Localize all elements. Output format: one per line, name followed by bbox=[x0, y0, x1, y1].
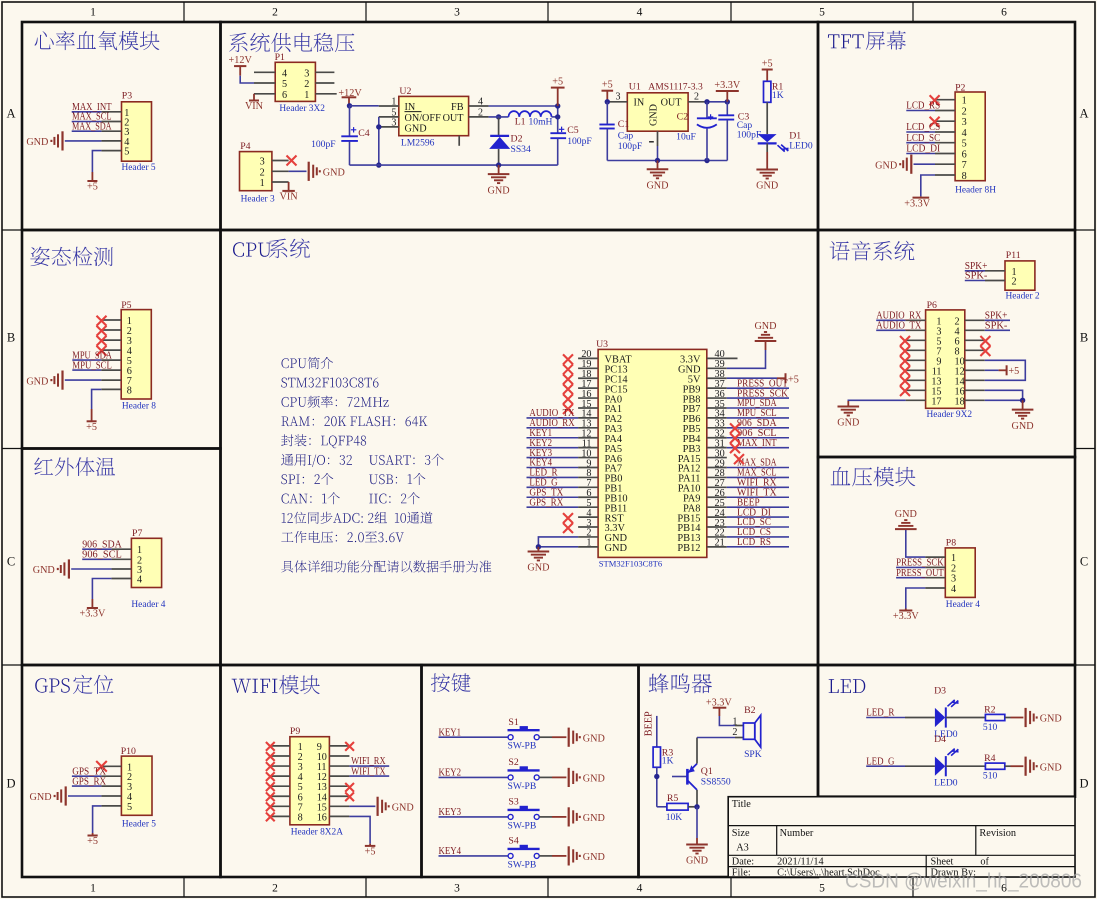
svg-text:P11: P11 bbox=[1006, 250, 1021, 261]
svg-text:Header 9X2: Header 9X2 bbox=[927, 410, 973, 420]
svg-text:C: C bbox=[7, 555, 15, 569]
wire Q1 emitter to gnd bbox=[696, 807, 698, 838]
title 血压模块 bbox=[831, 467, 916, 487]
svg-text:GND: GND bbox=[756, 181, 778, 192]
svg-text:LCD_RS: LCD_RS bbox=[906, 101, 940, 112]
no-connect X P9.8 bbox=[266, 812, 275, 821]
switch S4 KEY4 bbox=[439, 836, 605, 871]
net label GPS_TX P10 bbox=[72, 766, 107, 777]
svg-text:S2: S2 bbox=[508, 757, 518, 768]
resistor R1 1K bbox=[762, 59, 784, 135]
net label KEY2 U3 bbox=[527, 438, 579, 449]
svg-text:R4: R4 bbox=[984, 753, 996, 764]
svg-text:2: 2 bbox=[1012, 277, 1017, 288]
svg-text:906_SCL: 906_SCL bbox=[82, 550, 122, 561]
cpu info line 具体详细 bbox=[281, 560, 491, 572]
svg-text:GND: GND bbox=[583, 813, 605, 824]
net label GPS_TX U3 bbox=[527, 487, 579, 498]
svg-text:C: C bbox=[1080, 555, 1088, 569]
svg-text:GND: GND bbox=[405, 124, 427, 135]
svg-text:D: D bbox=[1079, 777, 1088, 791]
ground U1 bbox=[646, 161, 668, 192]
wire P6.17 gnd bbox=[848, 399, 905, 402]
svg-text:VIN: VIN bbox=[280, 192, 299, 203]
power +5 C5 bbox=[551, 77, 565, 106]
svg-text:100pF: 100pF bbox=[311, 139, 336, 150]
svg-text:OUT: OUT bbox=[443, 113, 465, 124]
power +5 P9.16 bbox=[349, 816, 375, 857]
svg-text:P10: P10 bbox=[121, 746, 136, 757]
svg-text:1K: 1K bbox=[662, 756, 674, 767]
ground P3.4 bbox=[26, 131, 101, 150]
net label BEEP bbox=[644, 711, 657, 747]
ground P9.15 bbox=[349, 797, 413, 816]
svg-text:P8: P8 bbox=[946, 537, 956, 548]
svg-text:8: 8 bbox=[962, 171, 967, 182]
svg-text:SS8550: SS8550 bbox=[701, 777, 731, 788]
net label GPS_RX P10 bbox=[72, 776, 107, 787]
svg-text:+5: +5 bbox=[602, 80, 613, 91]
svg-text:C2: C2 bbox=[677, 112, 689, 123]
svg-text:GND: GND bbox=[583, 852, 605, 863]
svg-text:S1: S1 bbox=[508, 717, 518, 728]
net label LCD_CS bbox=[906, 122, 940, 133]
header P1 bbox=[254, 52, 337, 114]
svg-text:GND: GND bbox=[392, 803, 414, 814]
net label LCD_SC bbox=[906, 133, 940, 144]
net label MAX_SCL bbox=[72, 112, 112, 123]
svg-text:100pF: 100pF bbox=[737, 130, 762, 141]
cpu info line 封装 bbox=[281, 434, 366, 448]
net label KEY4 U3 bbox=[527, 458, 579, 469]
no-connect X P5.4 bbox=[97, 346, 107, 356]
svg-text:10uF: 10uF bbox=[676, 132, 696, 143]
no-connect X P6.5 bbox=[900, 336, 910, 346]
net label 906_SCL P7 bbox=[82, 550, 122, 561]
title 语音系统 bbox=[830, 241, 915, 261]
svg-text:S3: S3 bbox=[508, 797, 518, 808]
cpu info line USART bbox=[369, 454, 444, 466]
section box voice system bbox=[818, 230, 1075, 457]
net label MAX_SDA bbox=[72, 121, 112, 132]
power +3.3V P7.4 bbox=[79, 579, 111, 620]
wire U1 ground rail bbox=[607, 146, 727, 163]
inductor L1 10mH bbox=[509, 111, 553, 128]
svg-text:LM2596: LM2596 bbox=[401, 137, 435, 148]
transistor Q1 SS8550 bbox=[672, 738, 731, 810]
svg-text:ON/OFF: ON/OFF bbox=[405, 113, 442, 124]
cpu info line 通用IO bbox=[281, 454, 352, 467]
svg-text:P3: P3 bbox=[122, 90, 132, 101]
svg-text:GND: GND bbox=[583, 733, 605, 744]
svg-text:A3: A3 bbox=[736, 843, 749, 854]
svg-text:1: 1 bbox=[90, 883, 96, 895]
svg-text:U1: U1 bbox=[629, 82, 641, 93]
svg-text:10K: 10K bbox=[666, 812, 683, 823]
no-connect X U3.17 bbox=[563, 384, 573, 394]
svg-text:5: 5 bbox=[819, 7, 825, 19]
no-ERC X U3.30 bbox=[734, 454, 744, 464]
cpu info line CAN bbox=[282, 492, 340, 504]
svg-text:Header 8: Header 8 bbox=[122, 401, 156, 411]
diode D2 SS34 bbox=[489, 114, 531, 168]
svg-text:+3.3V: +3.3V bbox=[714, 80, 740, 91]
switch S1 KEY1 bbox=[439, 717, 605, 752]
net label KEY1 U3 bbox=[527, 428, 579, 439]
svg-text:GND: GND bbox=[33, 565, 55, 576]
net label SPK+ P6 bbox=[985, 311, 1010, 322]
svg-text:P9: P9 bbox=[290, 726, 300, 737]
svg-text:Revision: Revision bbox=[979, 828, 1016, 839]
svg-text:4: 4 bbox=[282, 68, 287, 79]
section box power supply bbox=[221, 22, 819, 230]
svg-text:Header 3X2: Header 3X2 bbox=[279, 104, 325, 114]
ground P5.7 bbox=[26, 371, 101, 390]
svg-text:3: 3 bbox=[962, 117, 967, 128]
svg-text:SW-PB: SW-PB bbox=[508, 781, 537, 792]
watermark CSDN bbox=[845, 871, 1082, 893]
svg-text:SW-PB: SW-PB bbox=[508, 741, 537, 752]
svg-text:IN: IN bbox=[634, 98, 645, 109]
LED D1 bbox=[758, 131, 813, 153]
svg-text:Header 3: Header 3 bbox=[241, 195, 275, 205]
no-connect X P9.6 bbox=[266, 792, 275, 801]
ground P6 right bbox=[1012, 400, 1034, 432]
capacitor C3 bbox=[718, 102, 761, 161]
no-connect X P9.14 bbox=[345, 792, 354, 801]
svg-text:+5: +5 bbox=[788, 374, 799, 385]
power +5 P3.5 bbox=[87, 151, 101, 193]
no-connect X P5.2 bbox=[97, 326, 107, 336]
ground P2.7 bbox=[875, 155, 935, 174]
wire ground rail bbox=[350, 164, 558, 166]
svg-text:4: 4 bbox=[951, 584, 956, 595]
no-connect X P10.1 bbox=[96, 761, 107, 772]
svg-text:Size: Size bbox=[732, 828, 750, 839]
power +5 P6.12 bbox=[985, 365, 1019, 377]
section box keys bbox=[422, 665, 639, 877]
svg-text:B2: B2 bbox=[744, 705, 756, 716]
net label LCD_CS U3r bbox=[727, 527, 789, 538]
title 模块 bbox=[279, 675, 320, 694]
svg-text:File:: File: bbox=[732, 868, 751, 879]
net label 906_SDA P7 bbox=[82, 539, 122, 550]
power +12V node bbox=[338, 88, 362, 105]
svg-text:1: 1 bbox=[586, 538, 591, 549]
net label LED_R U3 bbox=[527, 468, 579, 479]
svg-text:6: 6 bbox=[962, 150, 967, 161]
svg-text:LCD_CS: LCD_CS bbox=[906, 122, 940, 133]
net label SPK- P11 bbox=[965, 271, 988, 282]
net label WIFI_RX U3r bbox=[727, 478, 789, 489]
svg-text:STM32F103C8T6: STM32F103C8T6 bbox=[599, 559, 663, 569]
svg-text:SW-PB: SW-PB bbox=[508, 820, 537, 831]
svg-text:GPS_RX: GPS_RX bbox=[529, 497, 563, 508]
ground Q1 bbox=[686, 838, 708, 867]
svg-text:D4: D4 bbox=[934, 734, 946, 745]
svg-text:Header 5: Header 5 bbox=[122, 163, 156, 173]
svg-text:P1: P1 bbox=[275, 52, 285, 63]
svg-text:6: 6 bbox=[282, 90, 287, 101]
svg-text:4: 4 bbox=[637, 883, 643, 895]
net label MPU_SCL bbox=[72, 360, 112, 371]
svg-text:4: 4 bbox=[637, 7, 643, 19]
net label MPU_SCL U3r bbox=[727, 408, 789, 419]
svg-text:Header 8H: Header 8H bbox=[955, 185, 996, 195]
svg-text:6: 6 bbox=[1001, 7, 1007, 19]
svg-text:3: 3 bbox=[304, 68, 309, 79]
net label WIFI_TX U3r bbox=[727, 487, 789, 498]
net label PRESS_OUT U3r bbox=[727, 378, 789, 389]
svg-text:+3.3V: +3.3V bbox=[79, 609, 105, 620]
regulator U1 AMS1117-3.3 bbox=[607, 82, 707, 146]
svg-text:+5: +5 bbox=[87, 182, 98, 193]
svg-text:5: 5 bbox=[819, 883, 825, 895]
cpu info line RAM FLASH bbox=[281, 416, 427, 426]
svg-text:KEY3: KEY3 bbox=[439, 807, 462, 818]
title block bbox=[728, 797, 1075, 879]
title 系统 bbox=[269, 239, 310, 259]
svg-text:3: 3 bbox=[616, 92, 621, 103]
power +5 U1 bbox=[602, 80, 614, 105]
header P5 bbox=[101, 300, 156, 411]
header P4 bbox=[240, 141, 289, 205]
svg-text:GPS_RX: GPS_RX bbox=[72, 776, 106, 787]
svg-text:Header 8X2A: Header 8X2A bbox=[291, 828, 344, 838]
switch S2 KEY2 bbox=[439, 757, 605, 792]
section box CPU system bbox=[221, 230, 819, 665]
header P7 bbox=[111, 528, 165, 610]
section box blood pressure bbox=[818, 457, 1075, 665]
svg-text:5: 5 bbox=[124, 147, 129, 158]
no-connect X P5.1 bbox=[97, 316, 107, 326]
header P6 bbox=[906, 300, 985, 420]
svg-text:4: 4 bbox=[962, 128, 967, 139]
svg-text:8: 8 bbox=[127, 385, 132, 396]
wire FB node bbox=[489, 103, 561, 133]
power VIN P4 bbox=[280, 182, 299, 203]
LED D4 row (LED_G,R4) bbox=[866, 734, 1062, 789]
svg-text:LED_G: LED_G bbox=[866, 756, 895, 767]
net label PRESS_SCK U3r bbox=[727, 388, 789, 399]
section box LED bbox=[818, 665, 1075, 797]
ground P7.3 bbox=[33, 559, 112, 578]
svg-text:Date:: Date: bbox=[732, 857, 754, 868]
section box WIFI bbox=[221, 665, 422, 877]
title WIFI bbox=[232, 679, 278, 693]
svg-text:BEEP: BEEP bbox=[644, 711, 655, 736]
svg-text:Header 4: Header 4 bbox=[946, 600, 980, 610]
net label AUDIO_TX P6 bbox=[876, 321, 922, 332]
net label MAX_INT U3r bbox=[727, 438, 789, 449]
wire OUT bbox=[489, 116, 509, 118]
svg-text:+5: +5 bbox=[1008, 366, 1019, 377]
cpu info line CPU简介 bbox=[282, 357, 334, 369]
capacitor C1 bbox=[599, 102, 642, 161]
title 系统供电稳压 bbox=[229, 33, 354, 53]
svg-text:Cap: Cap bbox=[618, 131, 634, 142]
wire R3 to base node bbox=[654, 767, 659, 807]
svg-text:Number: Number bbox=[780, 828, 814, 839]
cpu info line CPU频率 bbox=[282, 396, 389, 408]
svg-text:GND: GND bbox=[1040, 762, 1062, 773]
section box buzzer bbox=[639, 665, 819, 877]
svg-text:1K: 1K bbox=[772, 90, 784, 101]
no-ERC X U3.32 bbox=[730, 433, 740, 443]
svg-text:SW-PB: SW-PB bbox=[508, 859, 537, 870]
no-connect X P6.7 bbox=[900, 346, 910, 356]
no-connect X U3.18 bbox=[563, 374, 573, 384]
net label MAX_INT bbox=[72, 102, 113, 113]
svg-text:1: 1 bbox=[260, 178, 265, 189]
svg-text:PB12: PB12 bbox=[677, 543, 700, 554]
svg-text:+3.3V: +3.3V bbox=[893, 611, 919, 622]
svg-text:3: 3 bbox=[260, 157, 265, 168]
title 定位 bbox=[73, 675, 113, 694]
no-connect X P4.3 bbox=[287, 156, 297, 166]
svg-text:2021/11/14: 2021/11/14 bbox=[777, 857, 824, 868]
svg-text:Title: Title bbox=[732, 799, 752, 810]
net label PRESS_SCK P8 bbox=[896, 558, 944, 569]
svg-text:GND: GND bbox=[895, 509, 917, 520]
regulator U2 LM2596 bbox=[379, 86, 489, 148]
svg-text:1: 1 bbox=[732, 716, 737, 727]
svg-text:A: A bbox=[1079, 107, 1088, 121]
svg-text:Sheet: Sheet bbox=[931, 857, 954, 868]
net label LCD_DI U3r bbox=[727, 507, 789, 518]
capacitor C4 bbox=[311, 106, 370, 165]
no-connect X U3.15 bbox=[563, 404, 573, 414]
net label LCD_RS U3r bbox=[727, 537, 789, 548]
svg-text:LCD_DI: LCD_DI bbox=[906, 144, 940, 155]
net label LCD_RS bbox=[906, 101, 940, 112]
wire U3 pin39 gnd bbox=[727, 350, 766, 368]
power +12V P1 bbox=[229, 55, 254, 83]
svg-text:D3: D3 bbox=[934, 686, 946, 697]
svg-text:SPK-: SPK- bbox=[985, 321, 1008, 332]
no-connect X P9.1 bbox=[266, 742, 275, 751]
svg-text:KEY4: KEY4 bbox=[439, 846, 462, 857]
net label 906_SCL U3r bbox=[727, 428, 789, 439]
svg-text:SPK: SPK bbox=[744, 749, 762, 760]
speaker B2 SPK bbox=[697, 698, 762, 761]
svg-text:+5: +5 bbox=[762, 59, 773, 70]
net label WIFI_RX P9 bbox=[349, 756, 389, 767]
svg-text:WIFI_TX: WIFI_TX bbox=[351, 766, 386, 777]
svg-text:GND: GND bbox=[686, 856, 708, 867]
no-connect X P5.3 bbox=[97, 336, 107, 346]
svg-text:D: D bbox=[6, 777, 15, 791]
svg-text:P5: P5 bbox=[121, 300, 131, 311]
no-connect X P9.5 bbox=[266, 782, 275, 791]
no-connect X P9.13 bbox=[345, 783, 354, 792]
svg-text:P6: P6 bbox=[927, 300, 937, 311]
svg-text:2: 2 bbox=[272, 7, 278, 19]
svg-text:17: 17 bbox=[931, 396, 941, 407]
svg-text:AUDIO_TX: AUDIO_TX bbox=[876, 321, 922, 332]
svg-text:GND: GND bbox=[605, 543, 628, 554]
svg-text:GND: GND bbox=[754, 321, 776, 332]
svg-text:L1: L1 bbox=[515, 117, 526, 128]
svg-text:C5: C5 bbox=[567, 125, 579, 136]
section box attitude detect bbox=[22, 230, 221, 449]
no-connect X P9.9 bbox=[345, 742, 354, 751]
svg-text:18: 18 bbox=[955, 396, 965, 407]
svg-text:U3: U3 bbox=[596, 339, 608, 350]
svg-text:Header 5: Header 5 bbox=[122, 819, 156, 829]
power VIN P1 bbox=[245, 94, 264, 112]
power +5 P5.8 bbox=[86, 389, 101, 433]
svg-text:GND: GND bbox=[323, 168, 345, 179]
wire P6 pins10-14 bbox=[985, 360, 1026, 380]
svg-text:7: 7 bbox=[962, 160, 967, 171]
header P8 bbox=[925, 537, 980, 609]
wire U3 gnd pins bbox=[536, 537, 578, 550]
svg-text:GND: GND bbox=[875, 160, 897, 171]
svg-text:GND: GND bbox=[1012, 421, 1034, 432]
cpu info line USB bbox=[369, 473, 425, 485]
svg-text:510: 510 bbox=[983, 771, 998, 782]
no-ERC X U3.33 bbox=[730, 423, 740, 433]
title CPU bbox=[233, 242, 271, 257]
ground P4.2 bbox=[289, 162, 345, 181]
svg-text:OUT: OUT bbox=[661, 98, 683, 109]
net label WIFI_TX P9 bbox=[349, 766, 389, 777]
svg-text:GND: GND bbox=[527, 563, 549, 574]
svg-text:LED0: LED0 bbox=[789, 140, 813, 151]
title 红外体温 bbox=[34, 457, 115, 476]
svg-text:3: 3 bbox=[391, 117, 396, 128]
svg-text:+5: +5 bbox=[87, 836, 98, 847]
no-connect X P6.9 bbox=[900, 356, 910, 366]
no-connect X P9.7 bbox=[266, 802, 275, 811]
svg-text:C4: C4 bbox=[358, 128, 370, 139]
no-connect X P6.6 bbox=[980, 336, 990, 346]
ground P8 bbox=[895, 509, 917, 529]
svg-text:2: 2 bbox=[962, 107, 967, 118]
header P3 bbox=[101, 90, 156, 173]
svg-text:510: 510 bbox=[983, 722, 998, 733]
section box TFT screen bbox=[818, 22, 1075, 230]
svg-text:SPK-: SPK- bbox=[965, 271, 988, 282]
LED D3 row (LED_R,R2) bbox=[866, 686, 1062, 741]
no-connect X P6.13 bbox=[900, 376, 910, 386]
net label AUDIO_TX U3 bbox=[527, 408, 579, 419]
svg-text:GND: GND bbox=[649, 104, 660, 126]
net label MPU_SDA U3r bbox=[727, 398, 789, 409]
svg-text:B: B bbox=[1080, 331, 1088, 345]
svg-text:2: 2 bbox=[694, 92, 699, 103]
svg-text:B: B bbox=[7, 331, 15, 345]
no-connect X U3.3 bbox=[563, 523, 573, 533]
title 按键 bbox=[431, 673, 471, 692]
net label GPS_RX U3 bbox=[527, 497, 579, 508]
no-connect X P6.8 bbox=[980, 346, 990, 356]
svg-text:4: 4 bbox=[478, 96, 483, 107]
svg-text:U2: U2 bbox=[399, 86, 411, 97]
svg-text:GND: GND bbox=[26, 376, 48, 387]
cpu info line STM32F103C8T6 bbox=[281, 378, 378, 388]
net label AUDIO_RX P6 bbox=[876, 311, 922, 322]
net label MAX_SDA U3r bbox=[727, 458, 789, 469]
no-connect X P9.3 bbox=[266, 762, 275, 771]
wire U1 out bbox=[704, 99, 730, 104]
svg-text:3: 3 bbox=[454, 883, 460, 895]
svg-text:+5: +5 bbox=[86, 422, 97, 433]
no-connect X P2.1 bbox=[930, 95, 940, 105]
ground U3 bottom bbox=[527, 547, 549, 574]
svg-text:100pF: 100pF bbox=[567, 136, 592, 147]
